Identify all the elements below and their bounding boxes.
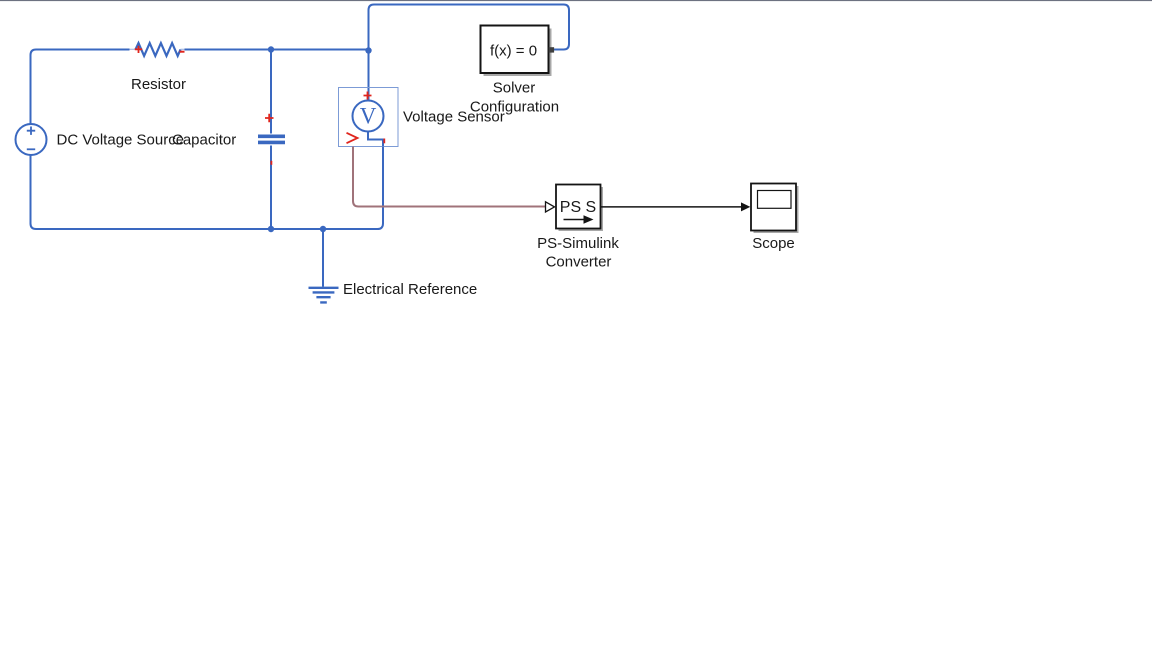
PS-Simulink converter block shadow [559,187,604,231]
wire capacitor bottom branch [270,146,272,230]
wire capacitor top branch [270,50,272,134]
capacitor plus marker [265,114,274,123]
solver configuration port square [549,47,554,52]
svg-text:Resistor: Resistor [131,76,186,93]
wire solver configuration loop [369,5,570,51]
wire faint stub right of resistor [181,48,185,50]
scope screen rect [758,191,792,209]
wire top rail right of resistor [185,49,369,51]
wire signal converter to scope [601,206,742,208]
solver configuration block shadow [484,29,552,77]
DC voltage source plus [27,127,35,135]
svg-text:f(x) = 0: f(x) = 0 [490,43,537,60]
svg-text:Electrical Reference: Electrical Reference [343,281,477,298]
wire ground stem [322,229,324,287]
svg-text:PS S: PS S [560,199,596,216]
wire PS signal (brown) [353,147,545,207]
svg-text:DC Voltage Source: DC Voltage Source [57,132,185,149]
svg-text:PS-Simulink: PS-Simulink [537,235,619,252]
resistor Resistor zigzag [136,43,181,56]
scope block shadow [754,186,799,233]
svg-text:Capacitor: Capacitor [172,132,236,149]
voltage sensor plus marker [364,92,372,100]
wire faint stub left of resistor [130,48,137,50]
PS-Simulink converter internal arrow [564,219,585,221]
DC voltage source circle [16,124,47,155]
svg-text:Solver: Solver [493,80,536,97]
resistor minus marker [180,51,185,53]
node junction dot at resistor/capacitor [268,46,274,52]
voltage sensor PS port chevron [347,133,358,143]
voltage sensor output red tick [383,139,385,144]
PS-Simulink converter input open arrow [546,202,555,212]
node junction dot at sensor branch [365,47,371,53]
voltage sensor box [339,88,399,147]
node junction dot capacitor bottom [268,226,274,232]
wire sensor internal jog [368,132,383,147]
wire left loop (source/bottom rail) [31,50,384,230]
scope block [751,184,796,231]
DC voltage source minus [27,148,35,150]
top toolbar edge line [0,0,1152,1]
voltage sensor circle [353,101,384,132]
resistor plus marker [135,46,142,53]
svg-text:Scope: Scope [752,235,795,252]
node junction dot ground [320,226,326,232]
svg-text:Converter: Converter [546,254,612,271]
svg-text:Voltage Sensor: Voltage Sensor [403,109,505,126]
svg-text:V: V [360,104,377,129]
PS-Simulink converter block [556,185,601,229]
scope input arrowhead [741,202,750,211]
wire junction to voltage sensor [368,51,370,102]
solver configuration block U1 [481,26,549,74]
ground electrical reference bars [309,288,339,303]
capacitor Capacitor plates [258,136,285,142]
capacitor minus marker [270,161,272,165]
